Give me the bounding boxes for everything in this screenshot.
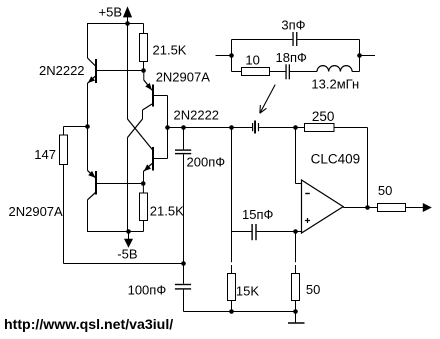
node junction dot on +5V rail — [125, 21, 130, 26]
svg-text:50: 50 — [378, 183, 392, 198]
node dot sub-circuit left — [229, 53, 234, 58]
svg-text:18пФ: 18пФ — [276, 50, 307, 65]
wire ground rail — [184, 311, 296, 313]
svg-text:13.2мГн: 13.2мГн — [311, 77, 359, 92]
node dot 200pF branch — [181, 125, 186, 130]
svg-text:15пФ: 15пФ — [242, 207, 273, 222]
transistor Q2 2N2907A (lower left PNP) — [9, 127, 144, 232]
wire sub-circuit right vertical — [359, 40, 361, 72]
annotation arrow to input cap — [260, 85, 275, 114]
wire summing node line left part — [168, 127, 253, 129]
capacitor series input coupling — [252, 121, 259, 134]
node dot bases junction — [165, 125, 170, 130]
resistor 147 — [34, 127, 87, 264]
capacitor 200пФ — [175, 128, 225, 264]
resistor 21.5K (lower) — [140, 184, 185, 232]
node dot 15pF branch — [229, 125, 234, 130]
resistor 250 (feedback) — [305, 109, 335, 132]
capacitor 3пФ — [232, 17, 360, 46]
wire top +5V rail — [88, 23, 144, 25]
resistor 50 (output series) — [378, 183, 406, 212]
wire -5V rail — [87, 231, 144, 233]
svg-text:2N2907A: 2N2907A — [9, 204, 64, 219]
node dot sub-circuit right — [357, 53, 362, 58]
wire bottom return rail — [64, 263, 184, 265]
node dot output — [365, 205, 370, 210]
svg-text:3пФ: 3пФ — [281, 17, 305, 32]
inductor 13.2мГн — [311, 66, 359, 92]
transistor Q4 2N2222 (lower right NPN output) — [144, 107, 220, 183]
svg-text:-5В: -5В — [117, 246, 137, 261]
capacitor 100пФ — [128, 264, 191, 312]
node dot ground junction — [293, 309, 298, 314]
node junction dot -5V rail — [126, 229, 131, 234]
wire left vertical to Q1 collector — [87, 23, 89, 58]
wire Q1 emitter vertical — [87, 84, 89, 127]
node dot return rail — [181, 261, 186, 266]
svg-text:147: 147 — [34, 147, 56, 162]
wire output arrow — [406, 203, 432, 212]
svg-text:200пФ: 200пФ — [187, 155, 226, 170]
node dot Q1 emitter / 147 / Q2 emitter — [85, 124, 90, 129]
svg-text:21.5K: 21.5K — [150, 204, 184, 219]
node dot 15K ground rail — [229, 309, 234, 314]
svg-text:10: 10 — [245, 53, 259, 68]
node dot Q1 base / 21.5K / Q3 emitter — [141, 68, 146, 73]
svg-text:250: 250 — [312, 109, 335, 124]
svg-text:+5В: +5В — [99, 5, 123, 20]
resistor 21.5K (upper) — [140, 24, 187, 71]
wire sub-circuit right stub — [360, 55, 376, 57]
resistor 15K — [228, 232, 260, 312]
svg-text:15K: 15K — [236, 283, 259, 298]
power -5V symbol — [117, 232, 137, 262]
resistor 50 (to ground) — [292, 232, 321, 312]
svg-text:100пФ: 100пФ — [128, 283, 167, 298]
capacitor 18пФ — [270, 50, 318, 79]
svg-text:50: 50 — [306, 282, 320, 297]
wire summing node line right part — [259, 127, 305, 129]
transistor Q1 2N2222 (upper left NPN) — [39, 58, 144, 84]
svg-text:2N2222: 2N2222 — [174, 107, 220, 122]
node dot noninverting input / 50 — [293, 229, 298, 234]
svg-text:21.5K: 21.5K — [153, 42, 187, 57]
svg-text:http://www.qsl.net/va3iul/: http://www.qsl.net/va3iul/ — [4, 316, 173, 332]
capacitor 15пФ — [232, 207, 303, 240]
resistor 10 — [232, 53, 270, 76]
svg-text:CLC409: CLC409 — [311, 152, 361, 167]
wire bias line +5V node down across to Q4 collector — [128, 24, 153, 150]
svg-text:2N2907A: 2N2907A — [156, 70, 211, 85]
transistor Q3 2N2907A (upper right PNP) — [128, 70, 211, 232]
svg-text:2N2222: 2N2222 — [39, 63, 85, 78]
power +5V symbol — [99, 5, 133, 24]
wire sub-circuit left vertical — [231, 40, 233, 72]
wire sub-circuit left stub — [216, 55, 232, 57]
op-amp U1 CLC409 — [302, 152, 361, 234]
wire 15pF branch vertical — [231, 128, 233, 232]
wire op-amp output — [343, 207, 377, 209]
wire feedback loop — [334, 128, 368, 208]
node dot Q4 emitter / Q2 base / 21.5K lower — [141, 181, 146, 186]
node dot inverting branch — [293, 125, 298, 130]
wire inverting input branch — [296, 128, 303, 184]
ground — [288, 312, 305, 324]
